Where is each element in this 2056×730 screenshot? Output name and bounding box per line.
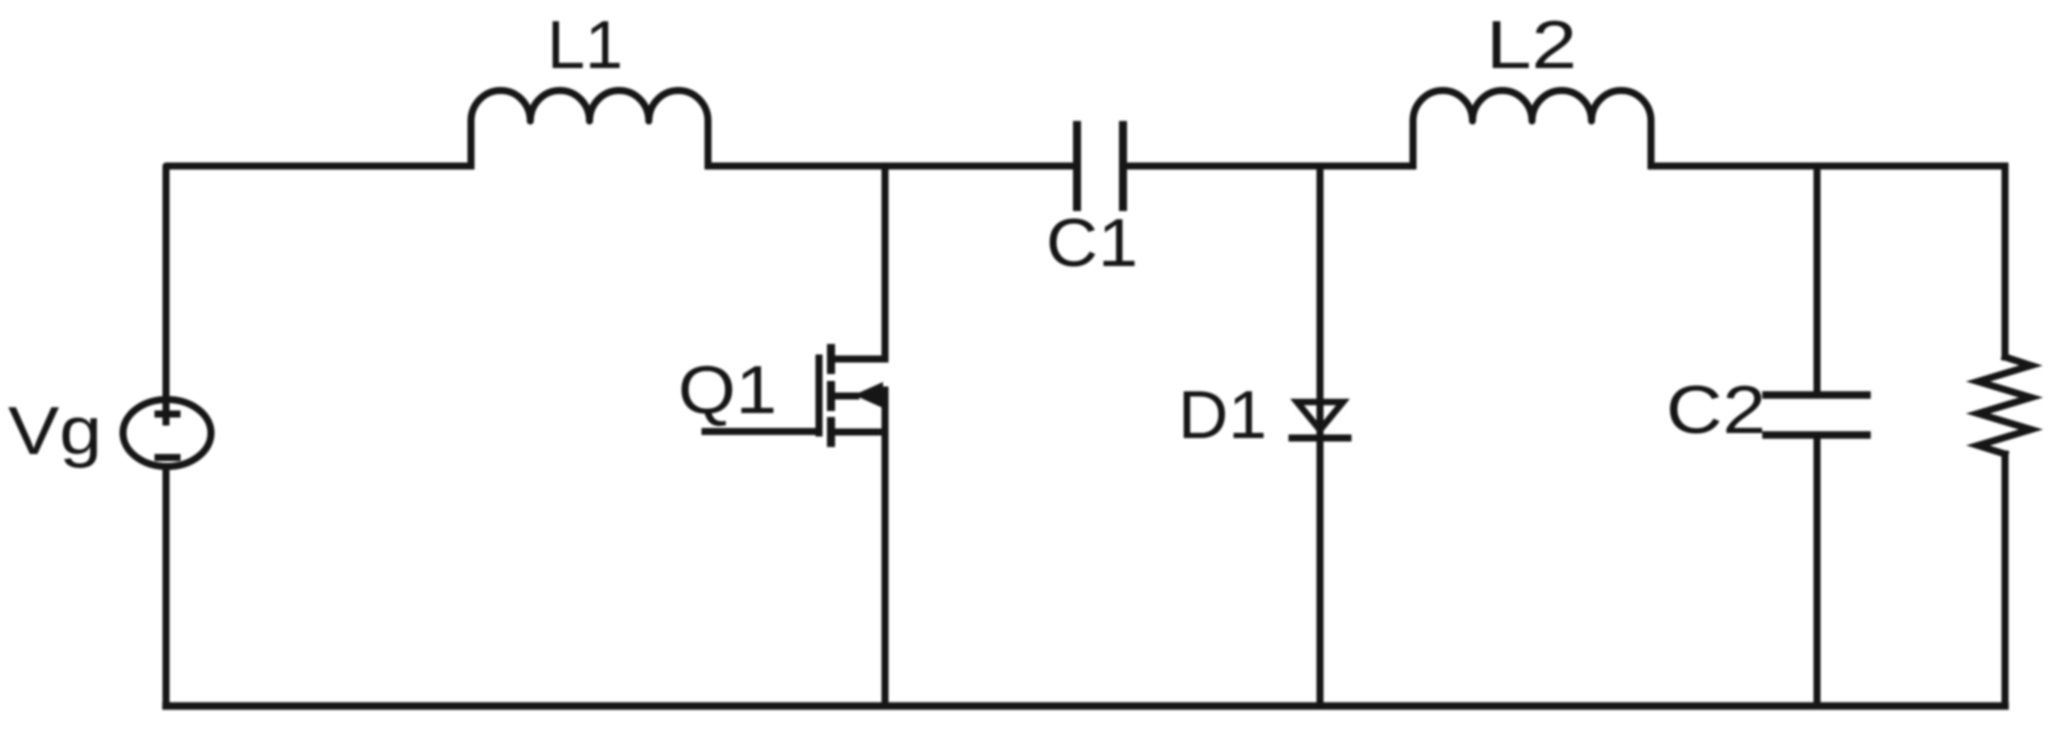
inductor L1 bbox=[471, 90, 708, 166]
wire: D1 anode vertical from top rail bbox=[1317, 166, 1324, 436]
wire: bottom rail bbox=[166, 702, 2005, 710]
wire: C2 top vertical from top rail bbox=[1814, 166, 1821, 395]
svg-text:C1: C1 bbox=[1046, 205, 1138, 281]
voltage source Vg bbox=[123, 400, 211, 467]
diode D1 bbox=[1292, 402, 1348, 438]
capacitor C1 bbox=[1077, 125, 1123, 207]
wire: C2 bottom vertical down to bottom rail bbox=[1814, 435, 1821, 706]
wire: top-left from Vg plus terminal up and right to L1 bbox=[166, 166, 471, 422]
wire: load resistor to bottom rail bbox=[2002, 454, 2009, 706]
wire: Q1 drain vertical from top rail bbox=[882, 166, 889, 359]
capacitor C2 bbox=[1766, 395, 1867, 435]
svg-text:Q1: Q1 bbox=[678, 352, 777, 428]
svg-text:Vg: Vg bbox=[8, 393, 102, 469]
wire: right vertical from top rail to load resistor bbox=[2002, 166, 2009, 357]
wire: top rail C1 right plate to L2 (through D1 anode node) bbox=[1123, 163, 1413, 170]
wire: top rail L2 to right edge (through C2 node) bbox=[1651, 163, 2005, 170]
svg-text:D1: D1 bbox=[1178, 377, 1267, 453]
wire: Q1 source vertical down to bottom rail bbox=[882, 390, 889, 706]
resistor R load bbox=[1978, 357, 2031, 454]
inductor L2 bbox=[1413, 90, 1651, 166]
svg-text:L2: L2 bbox=[1486, 7, 1577, 83]
wire: Vg minus terminal down to bottom rail bbox=[163, 467, 170, 706]
transistor Q1 (N-MOSFET) bbox=[705, 344, 883, 447]
wire: top rail L1 to C1 left plate (through drain node) bbox=[708, 163, 1077, 170]
svg-text:L1: L1 bbox=[547, 7, 623, 83]
wire: D1 cathode vertical down to bottom rail bbox=[1317, 438, 1324, 706]
svg-text:C2: C2 bbox=[1666, 372, 1766, 448]
